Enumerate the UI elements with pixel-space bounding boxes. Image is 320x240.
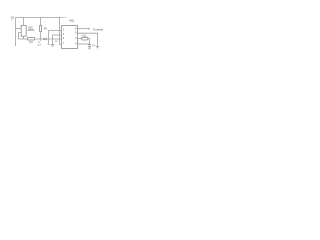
wire crystal to C4	[88, 39, 90, 45]
svg-text:4011: 4011	[69, 20, 75, 23]
svg-text:To aerial: To aerial	[93, 28, 104, 31]
label XL1	[82, 36, 87, 38]
label C3	[55, 41, 59, 43]
wire pin 3 to crystal	[78, 38, 82, 40]
node junction dot	[59, 17, 60, 18]
wire left vertical rail	[15, 18, 17, 45]
svg-text:3: 3	[75, 38, 77, 40]
IC IC1	[62, 26, 78, 49]
wire C3 branch	[52, 35, 54, 45]
svg-text:5: 5	[63, 38, 65, 40]
label C2 value	[37, 42, 41, 47]
wire drop to R2	[40, 18, 42, 26]
svg-text:8: 8	[75, 29, 77, 31]
wire main signal line	[19, 38, 28, 40]
label C4	[92, 45, 96, 47]
node left rail end arrow	[15, 44, 16, 46]
svg-text:2: 2	[63, 34, 65, 36]
svg-text:6: 6	[75, 33, 77, 35]
crystal XL1	[82, 37, 89, 40]
label IC1 type	[69, 20, 75, 23]
oscillator module X1	[21, 25, 26, 36]
label output To aerial	[93, 28, 104, 31]
svg-text:7: 7	[63, 43, 65, 45]
wire pin 6 to ground branch	[78, 33, 98, 46]
svg-text:R1: R1	[30, 41, 34, 44]
label R1	[30, 41, 34, 44]
capacitor C3	[51, 45, 54, 46]
node output arrow	[88, 28, 90, 30]
wire output pin 8	[78, 28, 89, 30]
label X1	[28, 26, 35, 32]
wire drop to oscillator top	[23, 18, 25, 26]
label R2	[44, 28, 48, 31]
pin numbers left	[63, 29, 65, 45]
wire top supply rail	[16, 17, 61, 19]
wire mid branch to pin 2	[53, 34, 62, 36]
ground stub below pin-1 branch	[48, 43, 50, 45]
wire R1 to IC	[35, 38, 62, 40]
wire rail faint continuation	[61, 17, 67, 19]
wire R2 bottom	[40, 32, 42, 40]
svg-text:4n7: 4n7	[37, 45, 41, 47]
resistor R1	[28, 38, 35, 41]
svg-text:C4: C4	[92, 45, 96, 47]
svg-text:C3: C3	[55, 41, 59, 43]
pin numbers right	[75, 29, 77, 46]
svg-text:R2: R2	[44, 28, 48, 31]
resistor R2	[40, 26, 42, 32]
capacitor C2 stub	[40, 39, 42, 41]
svg-text:OSC: OSC	[28, 26, 33, 29]
svg-text:4: 4	[75, 44, 77, 46]
svg-text:1: 1	[63, 29, 65, 31]
wire oscillator lower left pin	[19, 33, 22, 40]
svg-text:XL1: XL1	[82, 36, 87, 38]
wire oscillator left pin to rail	[16, 28, 22, 30]
ground right	[96, 47, 100, 49]
wire rail drop to IC pin 7	[60, 18, 62, 45]
svg-text:MOD1: MOD1	[28, 30, 35, 32]
supply label +9V	[11, 16, 14, 22]
wire oscillator bottom pin	[23, 37, 25, 40]
ground below C4	[88, 47, 90, 50]
capacitor C4	[88, 45, 91, 47]
wire up-branch to pin 1	[49, 31, 62, 44]
diode D1	[44, 38, 47, 41]
wire pin 4 to C4 junction	[78, 43, 90, 45]
